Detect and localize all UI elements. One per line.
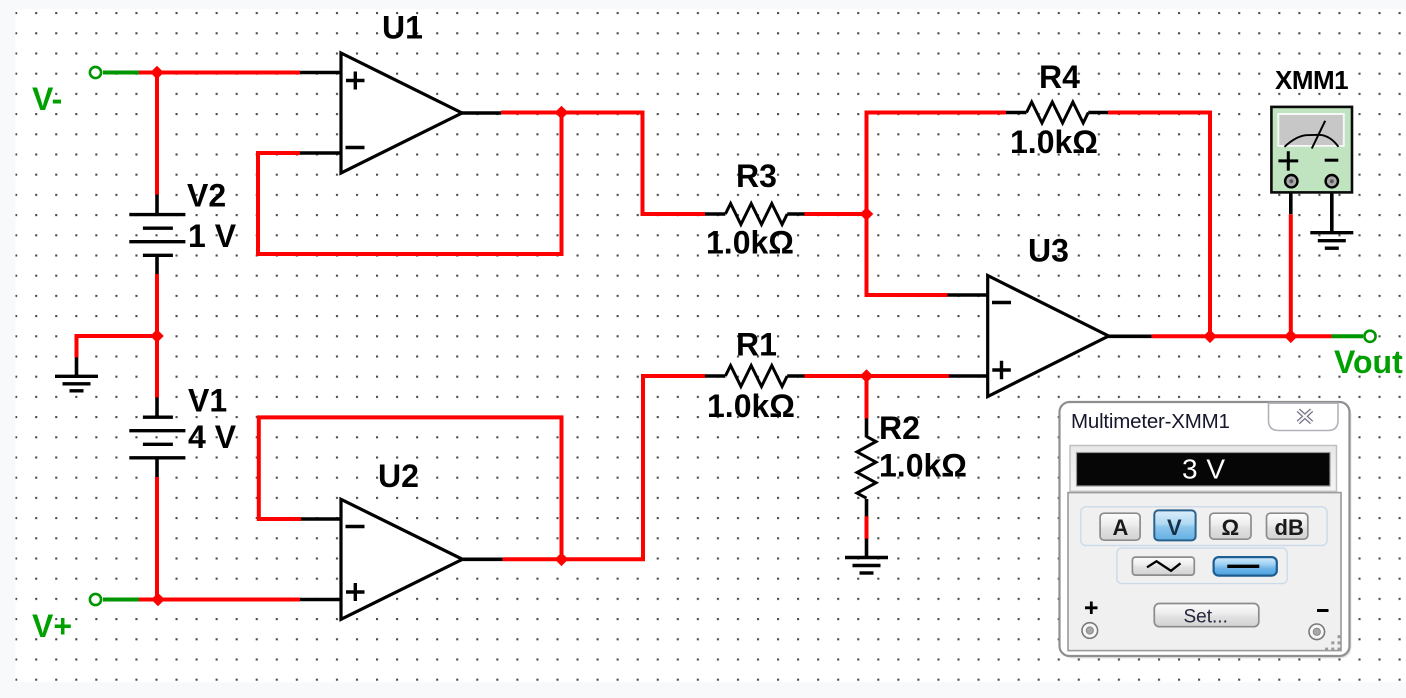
- battery V2: [129, 195, 185, 275]
- svg-text:V+: V+: [32, 608, 72, 644]
- wire R4 to output column: [1108, 113, 1210, 337]
- dialog display: [1077, 453, 1331, 487]
- terminal V-: [90, 67, 101, 78]
- svg-text:1.0kΩ: 1.0kΩ: [879, 448, 967, 484]
- svg-text:V1: V1: [188, 383, 227, 419]
- pin stub U1 minus: [300, 151, 342, 155]
- wire V- terminal green: [103, 71, 139, 75]
- group box measurement: [1081, 507, 1327, 546]
- dialog minus jack: [1309, 624, 1325, 640]
- wire U1 output to R3: [562, 113, 706, 215]
- svg-text:U2: U2: [378, 458, 419, 494]
- button DC selected: [1214, 557, 1277, 576]
- wire junction to V2: [155, 71, 159, 195]
- resistor R4: [1006, 102, 1108, 123]
- dialog plus jack: [1082, 623, 1098, 639]
- button V selected: [1154, 510, 1195, 540]
- svg-text:dB: dB: [1275, 515, 1304, 540]
- group box waveform: [1117, 548, 1287, 584]
- wire XMM1 plus lead: [1289, 189, 1293, 214]
- button dB: [1267, 513, 1308, 540]
- wire center junction to ground: [77, 336, 160, 358]
- op-amp U2: [341, 499, 463, 619]
- node U1 output junction: [555, 106, 569, 120]
- plus terminal label: [1085, 602, 1098, 615]
- wire junction down to U3 minus: [867, 214, 948, 295]
- op-amp U3: [988, 276, 1109, 397]
- node center junction: [150, 329, 164, 343]
- svg-text:R4: R4: [1039, 59, 1080, 95]
- wire V2 to center junction: [155, 274, 159, 336]
- ground pin R2: [865, 539, 869, 558]
- svg-text:1.0kΩ: 1.0kΩ: [1010, 124, 1098, 160]
- wire XMM1 plus red: [1289, 214, 1293, 336]
- wire R1 to junction: [805, 374, 867, 378]
- battery V1: [129, 398, 185, 478]
- svg-text:Multimeter-XMM1: Multimeter-XMM1: [1071, 410, 1230, 433]
- svg-text:U3: U3: [1028, 233, 1069, 269]
- pin stub U1 output: [461, 111, 501, 115]
- wire center junction to V1: [155, 336, 159, 398]
- wire junction down to R2: [865, 376, 869, 419]
- button AC: [1132, 557, 1194, 575]
- svg-text:3 V: 3 V: [1182, 454, 1226, 485]
- pin stub U3 plus: [949, 374, 989, 378]
- terminal V+: [90, 594, 101, 605]
- multimeter dialog window: [1060, 402, 1352, 659]
- node output junction R4: [1203, 330, 1217, 344]
- svg-text:R1: R1: [736, 327, 777, 363]
- node junction V-: [150, 66, 164, 80]
- terminal Vout: [1364, 331, 1375, 342]
- node U2 output junction: [555, 553, 569, 567]
- pin stub U3 minus: [948, 293, 989, 297]
- ground XMM1: [1310, 233, 1353, 249]
- wire junction to U3 plus: [867, 374, 950, 378]
- svg-text:R3: R3: [736, 158, 777, 194]
- button A: [1100, 513, 1140, 540]
- wire U1 output: [501, 111, 562, 115]
- wire to U2 + input: [139, 598, 300, 602]
- dialog display bezel: [1070, 446, 1337, 492]
- svg-text:1.0kΩ: 1.0kΩ: [706, 225, 794, 261]
- pin stub U1 plus: [300, 71, 342, 75]
- dialog resize grip: [1325, 635, 1340, 650]
- ground R2: [845, 558, 888, 574]
- minus terminal label: [1317, 609, 1329, 612]
- wire U2 feedback: [259, 417, 562, 559]
- svg-text:V-: V-: [32, 81, 62, 117]
- dialog client panel: [1068, 493, 1341, 651]
- svg-text:A: A: [1113, 515, 1129, 540]
- svg-text:Set...: Set...: [1184, 607, 1228, 628]
- wire V+ terminal green: [103, 598, 139, 602]
- button Set: [1154, 604, 1259, 628]
- svg-text:V: V: [1167, 515, 1182, 540]
- ground: [55, 376, 98, 391]
- button Ohm: [1210, 513, 1251, 540]
- resistor R1: [705, 366, 805, 387]
- svg-text:1.0kΩ: 1.0kΩ: [707, 388, 795, 424]
- resistor R3: [705, 204, 805, 225]
- wire U2 output to R1: [562, 376, 706, 559]
- resistor R2: [857, 418, 876, 516]
- svg-text:V2: V2: [187, 178, 226, 214]
- pin stub U2 output: [462, 557, 503, 561]
- wire V1 to V+ junction: [155, 477, 159, 601]
- wire U2 output: [503, 557, 562, 561]
- pin stub U2 plus: [300, 598, 342, 602]
- svg-text:1 V: 1 V: [188, 218, 237, 254]
- dialog close button: [1269, 403, 1339, 430]
- wire to U1 + input: [139, 71, 300, 75]
- pin stub U3 output: [1108, 334, 1152, 338]
- pin stub U2 minus: [301, 517, 342, 521]
- svg-text:4 V: 4 V: [188, 419, 237, 455]
- wire Vout terminal green: [1332, 334, 1363, 338]
- wire R3 to junction: [805, 212, 867, 216]
- wire junction up to R4 row: [867, 113, 1007, 215]
- ground pin: [75, 357, 79, 376]
- node R3 junction: [860, 207, 874, 221]
- op-amp U1: [341, 53, 462, 173]
- svg-text:Vout: Vout: [1334, 344, 1403, 380]
- wire U3 output: [1152, 334, 1332, 338]
- svg-text:R2: R2: [879, 410, 920, 446]
- node R1 junction: [860, 369, 874, 383]
- multimeter XMM1 icon: [1271, 107, 1352, 192]
- svg-text:Ω: Ω: [1222, 515, 1240, 540]
- wire XMM1 minus lead: [1330, 189, 1334, 233]
- wire U1 feedback: [258, 113, 562, 255]
- wire R2 to ground: [865, 516, 869, 539]
- node output junction XMM1: [1284, 330, 1298, 344]
- svg-text:U1: U1: [382, 10, 423, 46]
- node junction V+: [151, 593, 165, 607]
- svg-text:XMM1: XMM1: [1275, 65, 1348, 95]
